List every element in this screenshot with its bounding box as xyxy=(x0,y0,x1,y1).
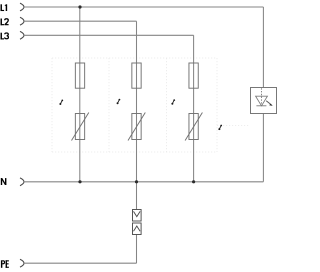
wire L1 line xyxy=(24,6,263,8)
label L3 xyxy=(1,33,5,40)
dashed coupling line to indicator xyxy=(217,125,250,127)
spark gap N-PE box bottom xyxy=(133,223,142,235)
node N junction 2 xyxy=(135,180,138,183)
wire indicator drop xyxy=(262,7,264,182)
spark gap N-PE box top xyxy=(133,210,142,222)
label L2 xyxy=(1,19,5,26)
fuse F3 xyxy=(189,63,198,88)
fuse F2 xyxy=(132,63,141,88)
indicator U1 box xyxy=(251,88,277,114)
varistor R2 xyxy=(128,113,145,141)
label L1 xyxy=(1,4,8,11)
wire L2 line xyxy=(24,20,137,22)
mark U label indicator xyxy=(218,125,222,131)
node L1 junction xyxy=(78,5,81,8)
label PE xyxy=(1,260,9,268)
wire branch 1 vertical xyxy=(79,7,81,182)
terminal PE xyxy=(20,259,24,267)
dashed enclosure box 3 edge xyxy=(216,58,218,152)
dashed enclosure box 1 (around F1/R1) xyxy=(52,58,217,152)
terminal L1 xyxy=(20,3,24,11)
indicator U1 arrow xyxy=(266,101,270,104)
wire L3 line xyxy=(24,34,194,36)
dashed enclosure box 2 edge xyxy=(166,58,168,152)
varistor R1 xyxy=(72,113,89,141)
node N junction 1 xyxy=(78,180,81,183)
wire branch 2 vertical xyxy=(136,21,138,263)
wire N line xyxy=(24,181,263,183)
mark U label branch 3 xyxy=(171,99,175,105)
spark gap N-PE chevron top xyxy=(134,211,141,216)
terminal L2 xyxy=(20,17,24,25)
mark U label branch 1 xyxy=(59,100,63,106)
terminal L3 xyxy=(20,31,24,39)
fuse F1 xyxy=(75,63,84,88)
wire PE line xyxy=(24,262,137,264)
label N xyxy=(1,178,7,185)
node N junction 3 xyxy=(192,180,195,183)
spark gap N-PE chevron bottom xyxy=(134,226,141,231)
wire branch 3 vertical xyxy=(193,35,195,182)
mark U label branch 2 xyxy=(117,99,121,105)
varistor R3 xyxy=(185,113,202,141)
terminal N xyxy=(20,178,24,186)
indicator U1 symbol xyxy=(256,88,268,106)
